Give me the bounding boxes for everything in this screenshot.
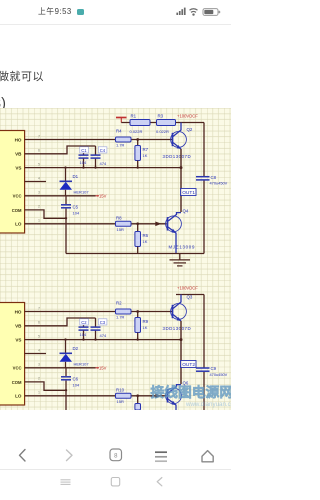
svg-text:C1: C1 (81, 148, 87, 153)
svg-text:3DD13007D: 3DD13007D (163, 154, 192, 159)
svg-text:R1: R1 (131, 114, 137, 119)
resistor R7 pulldown (135, 138, 149, 168)
wire VB pin (25, 318, 96, 326)
svg-text:D2: D2 (73, 346, 79, 351)
svg-text:1K: 1K (143, 153, 148, 158)
schematic grid background (0, 108, 231, 410)
svg-text:7: 7 (38, 134, 40, 138)
svg-text:0.022R: 0.022R (130, 129, 143, 134)
transistor Q2 NPN high side (163, 123, 193, 160)
wire output node vertical (180, 149, 182, 212)
power flag +15V (96, 194, 107, 199)
transistor Q4 NPN low side (166, 209, 195, 254)
resistor R11 pulldown (135, 394, 141, 410)
capacitor C3 (91, 319, 107, 338)
svg-text:MJE13009: MJE13009 (169, 245, 196, 250)
svg-text:接线图电源网: 接线图电源网 (151, 384, 232, 400)
home button (202, 451, 213, 462)
net label OUT1 (181, 189, 197, 197)
power flag +15V (96, 366, 107, 371)
wire LO pin to low-side base (25, 223, 167, 225)
svg-text:470u450V: 470u450V (210, 372, 228, 377)
svg-text:VCC: VCC (13, 194, 22, 199)
ground symbol (170, 254, 191, 266)
svg-text:VS: VS (15, 166, 21, 171)
wire VS pin to output node (25, 339, 181, 341)
svg-text:HO: HO (15, 309, 22, 314)
svg-text:6: 6 (38, 149, 40, 153)
svg-text:R6: R6 (143, 233, 149, 238)
svg-text:1K: 1K (143, 239, 148, 244)
browser toolbar (0, 440, 231, 470)
svg-text:C4: C4 (100, 148, 106, 153)
svg-text:6: 6 (38, 321, 40, 325)
status bar divider (0, 24, 231, 25)
svg-text:OUT2: OUT2 (182, 362, 195, 368)
power bar symbol (116, 118, 127, 123)
svg-text:8: 8 (114, 453, 118, 459)
android nav bar (0, 472, 231, 496)
junction VS-output (180, 338, 183, 341)
svg-text:C5: C5 (73, 204, 79, 209)
capacitor C6 104 (61, 368, 80, 410)
pin 4 stub (25, 353, 46, 355)
svg-text:R7: R7 (143, 147, 149, 152)
VS junction dots (64, 338, 139, 340)
svg-text:4: 4 (38, 176, 40, 180)
svg-text:104: 104 (73, 382, 80, 387)
svg-text:VB: VB (15, 152, 22, 157)
svg-text:1: 1 (38, 219, 40, 223)
svg-text:1.7R: 1.7R (116, 314, 125, 319)
COM junction dot (65, 217, 67, 219)
svg-text:R8: R8 (116, 215, 122, 220)
svg-text:HER107: HER107 (74, 362, 90, 367)
wire HO pin to base network (25, 139, 173, 141)
COM junction dot (65, 389, 67, 391)
svg-text:474: 474 (100, 333, 107, 338)
svg-text:www.dianyuan.c: www.dianyuan.c (185, 401, 231, 408)
U1 pin numbers (38, 134, 40, 222)
svg-text:1K: 1K (143, 325, 148, 330)
svg-text:C2: C2 (81, 320, 87, 325)
svg-text:474: 474 (100, 161, 107, 166)
svg-text:104: 104 (80, 160, 87, 165)
svg-text:D1: D1 (73, 174, 79, 179)
capacitor C8 470u450V (196, 175, 228, 186)
wire COM pin (25, 382, 66, 390)
nav back (157, 478, 162, 486)
resistor R8 15R (116, 215, 132, 232)
nav menu (61, 479, 71, 481)
resistor R10 15R (116, 387, 132, 404)
svg-text:HO: HO (15, 137, 22, 142)
resistor R2 1.7R (116, 300, 132, 319)
status bar time (38, 6, 72, 17)
svg-text:OUT1: OUT1 (182, 190, 195, 196)
status bar app icon (77, 9, 84, 15)
diode D1 HER107 (60, 168, 90, 196)
svg-text:3: 3 (38, 363, 40, 367)
wire VS pin to output node (25, 167, 181, 169)
capacitor C9 470u450V (196, 366, 228, 377)
svg-text:5: 5 (38, 334, 40, 338)
svg-text:15R: 15R (117, 227, 124, 232)
svg-text:R4: R4 (116, 128, 122, 133)
svg-text:2: 2 (38, 377, 40, 381)
pin 4 stub (25, 181, 46, 183)
VS junction dots (64, 166, 139, 168)
capacitor C2 (79, 318, 89, 340)
junction low-side base arrow (155, 222, 161, 227)
status bar right icons (170, 4, 225, 18)
svg-text:VS: VS (15, 338, 21, 343)
svg-text:R9: R9 (143, 319, 149, 324)
resistor R9 pulldown (135, 310, 149, 340)
wire COM pin (25, 210, 66, 218)
svg-text:104: 104 (73, 210, 80, 215)
svg-text:1: 1 (38, 391, 40, 395)
resistor R3 0.022R (156, 114, 176, 135)
wire VCC pin (25, 367, 96, 369)
capacitor C5 104 (61, 196, 80, 254)
svg-text:470u450V: 470u450V (210, 181, 228, 186)
wire right rail (203, 295, 205, 368)
menu button (155, 451, 167, 453)
resistor R6 pulldown (135, 222, 149, 253)
transistor Q3 NPN high side (163, 295, 193, 332)
junction low-side base arrow (155, 394, 161, 399)
svg-text:C9: C9 (211, 366, 217, 371)
svg-text:VCC: VCC (13, 366, 22, 371)
list marker 3) (0, 96, 6, 112)
svg-text:COM: COM (12, 380, 22, 385)
signal bars (176, 8, 185, 15)
svg-text:7: 7 (38, 306, 40, 310)
U2 pin labels (12, 309, 22, 398)
U2 pin numbers (38, 306, 40, 394)
wire right rail (203, 123, 205, 177)
svg-text:R10: R10 (116, 387, 125, 392)
svg-text:15R: 15R (117, 399, 124, 404)
svg-text:+100VDCF: +100VDCF (177, 113, 198, 118)
svg-text:C3: C3 (100, 320, 106, 325)
wifi icon (190, 9, 198, 13)
svg-text:C6: C6 (73, 376, 79, 381)
wire LO pin to low-side base (25, 395, 167, 397)
nav home (111, 478, 119, 486)
capacitor C4 (91, 147, 107, 166)
transistor Q6 NPN low side (166, 381, 189, 410)
wire top power rail (121, 122, 204, 124)
wire HO pin to base network (25, 311, 173, 313)
svg-text:R3: R3 (158, 114, 164, 119)
svg-text:+15V: +15V (97, 194, 107, 199)
wire VB pin (25, 146, 96, 154)
svg-text:Q2: Q2 (187, 127, 193, 132)
svg-text:LO: LO (15, 222, 22, 227)
wire output node vertical (180, 321, 182, 384)
svg-text:C8: C8 (211, 175, 217, 180)
svg-text:COM: COM (12, 208, 22, 213)
paragraph text (0, 68, 44, 84)
IC U2 driver block (0, 303, 25, 406)
toolbar divider (0, 469, 231, 470)
watermark (151, 384, 234, 408)
IC U1 driver block (0, 131, 25, 234)
net label OUT2 (181, 361, 197, 369)
svg-text:HER107: HER107 (74, 190, 90, 195)
svg-text:LO: LO (15, 394, 22, 399)
diode D2 HER107 (60, 340, 90, 368)
svg-text:3: 3 (38, 191, 40, 195)
svg-text:+15V: +15V (97, 366, 107, 371)
svg-text:3DD13007D: 3DD13007D (163, 326, 192, 331)
svg-text:R2: R2 (116, 300, 122, 305)
wire bottom ground rail (66, 253, 204, 255)
wire top rail (176, 294, 204, 296)
svg-text:2: 2 (38, 205, 40, 209)
svg-text:4: 4 (38, 348, 40, 352)
U1 pin labels (12, 137, 22, 226)
svg-text:104: 104 (80, 332, 87, 337)
wire VCC pin (25, 195, 96, 197)
resistor R4 1.7R (116, 128, 132, 147)
back button (20, 450, 26, 462)
svg-text:1.7R: 1.7R (116, 142, 125, 147)
resistor R1 0.022R (130, 114, 151, 135)
svg-text:5: 5 (38, 162, 40, 166)
capacitor C1 (79, 146, 89, 168)
battery icon (203, 9, 218, 16)
svg-text:Q4: Q4 (183, 209, 189, 214)
svg-text:+100VDCF: +100VDCF (177, 285, 198, 290)
tabs button (110, 449, 122, 461)
forward button (67, 450, 73, 461)
svg-text:Q3: Q3 (187, 295, 193, 300)
junction VS-output (180, 166, 183, 169)
svg-text:0.022R: 0.022R (156, 129, 169, 134)
svg-text:VB: VB (15, 324, 22, 329)
